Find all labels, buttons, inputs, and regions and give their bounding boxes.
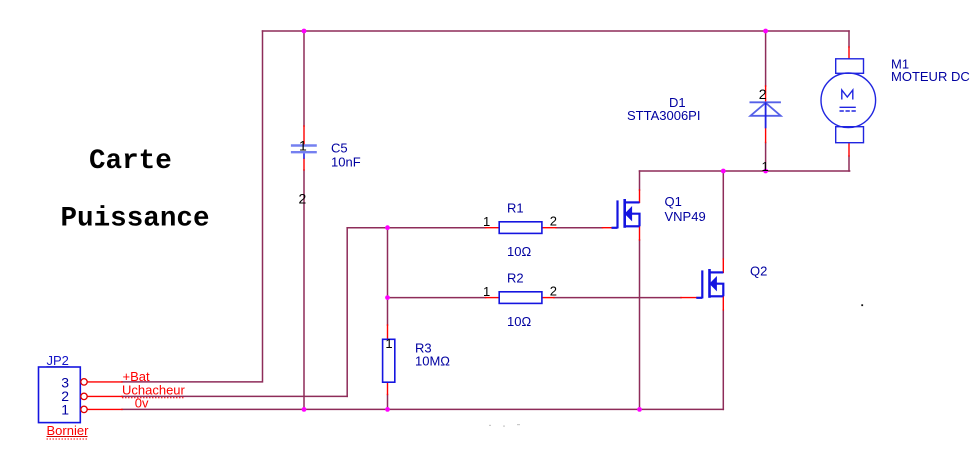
svg-text:2: 2 — [550, 284, 557, 299]
svg-text:1: 1 — [483, 284, 490, 299]
svg-text:10nF: 10nF — [331, 155, 361, 170]
svg-text:MOTEUR DC: MOTEUR DC — [891, 69, 970, 84]
svg-text:Q1: Q1 — [665, 194, 682, 209]
svg-text:2: 2 — [550, 214, 557, 229]
svg-text:10Ω: 10Ω — [507, 314, 531, 329]
svg-text:0v: 0v — [135, 395, 149, 410]
svg-text:Carte: Carte — [89, 146, 172, 177]
svg-text:Uchacheur: Uchacheur — [122, 383, 186, 398]
svg-text:10MΩ: 10MΩ — [415, 353, 450, 368]
svg-text:Puissance: Puissance — [61, 204, 210, 235]
svg-text:1: 1 — [299, 138, 307, 154]
svg-text:+Bat: +Bat — [123, 369, 150, 384]
svg-text:VNP49: VNP49 — [665, 209, 706, 224]
svg-text:JP2: JP2 — [47, 353, 69, 368]
svg-text:STTA3006PI: STTA3006PI — [627, 108, 700, 123]
svg-text:2: 2 — [299, 191, 307, 207]
svg-text:10Ω: 10Ω — [507, 244, 531, 259]
svg-text:1: 1 — [483, 214, 490, 229]
svg-text:R1: R1 — [507, 201, 524, 216]
svg-text:1: 1 — [385, 336, 392, 351]
svg-text:R2: R2 — [507, 271, 524, 286]
svg-text:1: 1 — [762, 159, 769, 174]
svg-text:2: 2 — [759, 86, 767, 102]
svg-text:Bornier: Bornier — [47, 423, 90, 438]
svg-text:1: 1 — [61, 401, 69, 417]
svg-text:C5: C5 — [331, 141, 348, 156]
svg-text:Q2: Q2 — [750, 264, 767, 279]
